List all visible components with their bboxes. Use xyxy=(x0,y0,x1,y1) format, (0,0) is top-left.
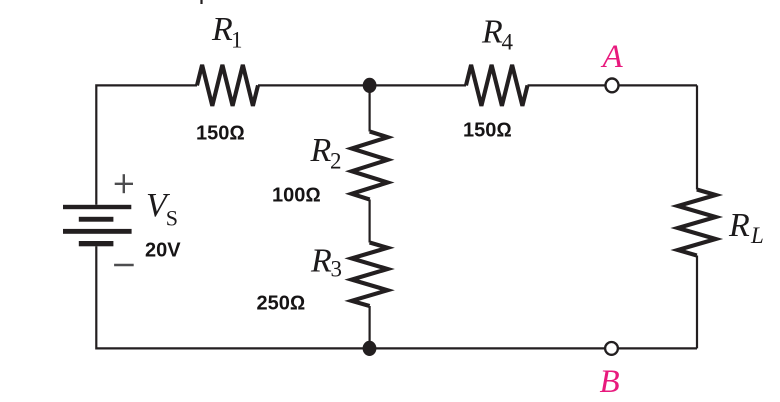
resistor R3 xyxy=(352,243,388,307)
label RL xyxy=(728,207,764,248)
svg-text:150Ω: 150Ω xyxy=(196,123,245,145)
resistor R2 xyxy=(352,132,388,200)
svg-text:R: R xyxy=(211,11,233,48)
label R3 xyxy=(310,243,342,282)
svg-text:L: L xyxy=(750,223,764,248)
resistor RL xyxy=(678,190,716,256)
svg-text:R: R xyxy=(481,14,503,51)
svg-text:1: 1 xyxy=(231,28,243,53)
wire R1 to R4 (through top junction) xyxy=(258,84,466,86)
label R1 xyxy=(211,11,243,53)
svg-text:150Ω: 150Ω xyxy=(463,120,512,142)
wire right vertical lower (RL to bottom corner) xyxy=(696,256,698,349)
svg-text:S: S xyxy=(166,206,178,231)
artifact tick xyxy=(200,0,202,4)
battery + terminal mark xyxy=(115,174,133,193)
node B (open terminal) xyxy=(605,342,618,355)
wire bottom (corner to battery, through node B and bottom junction) xyxy=(96,246,697,348)
svg-text:R: R xyxy=(728,207,750,244)
wire R2 to R3 xyxy=(369,200,371,243)
label VS xyxy=(146,187,178,231)
wire middle vertical top (junction to R2) xyxy=(369,85,371,131)
svg-text:A: A xyxy=(601,39,624,75)
svg-text:250Ω: 250Ω xyxy=(257,293,306,315)
junction dot (top) xyxy=(363,78,377,93)
svg-text:3: 3 xyxy=(331,257,343,282)
wire R3 to bottom junction xyxy=(369,306,371,348)
junction dot (bottom) xyxy=(363,341,377,356)
svg-text:B: B xyxy=(600,364,620,400)
resistor R4 xyxy=(466,65,528,106)
svg-text:20V: 20V xyxy=(145,240,181,262)
node A (open terminal) xyxy=(606,79,619,93)
svg-text:R: R xyxy=(310,132,332,169)
svg-text:4: 4 xyxy=(502,30,514,55)
wire top-left (battery to R1) xyxy=(96,85,197,204)
battery - terminal mark xyxy=(114,264,134,266)
svg-text:2: 2 xyxy=(330,149,342,174)
svg-text:R: R xyxy=(310,243,332,280)
label R2 xyxy=(310,132,342,174)
resistor R1 xyxy=(197,65,258,106)
wire R4 to top-right corner xyxy=(528,84,698,86)
svg-text:100Ω: 100Ω xyxy=(272,184,321,206)
label R4 xyxy=(481,14,514,55)
battery VS plates xyxy=(63,205,132,247)
wire right vertical upper (corner to RL) xyxy=(696,85,698,189)
